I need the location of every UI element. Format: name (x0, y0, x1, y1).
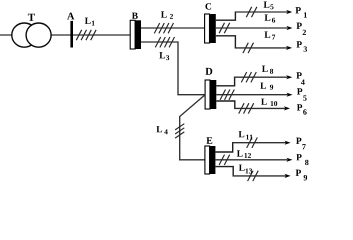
hatch marks line L5 (246, 7, 257, 17)
node A (bar) (70, 21, 73, 48)
load label P6 (297, 104, 307, 114)
hatch marks line L6 (219, 23, 230, 33)
value label L8 (262, 66, 273, 74)
bus C (205, 14, 210, 43)
arrow to load P1 (286, 10, 292, 14)
label bus C (205, 3, 211, 9)
load label P5 (297, 88, 307, 100)
wire L13: bottom branch of E (215, 167, 233, 176)
hatch marks line L1 (76, 30, 96, 40)
arrow to load P8 (286, 158, 292, 162)
wire L6: middle branch of C (216, 27, 288, 29)
hatch marks line L10 (239, 103, 254, 113)
bus B (130, 20, 135, 49)
wire L11: top branch of E (215, 143, 232, 152)
wire L4: from D input diagonally down to bus E (180, 95, 205, 160)
wire: main feeder from left edge through transformer T to node A and bus B (0, 34, 130, 36)
wire L3: bus B down and right to bus D (141, 42, 205, 95)
value label L2 (161, 11, 173, 18)
arrow to load P6 (284, 106, 290, 110)
arrow to load P7 (285, 141, 291, 145)
label bus E (206, 137, 212, 143)
label T (transformer) (28, 14, 35, 21)
value label L5 (264, 1, 274, 9)
value label L10 (261, 99, 277, 106)
label bus B (132, 13, 138, 19)
wire L9: middle branch of D (216, 94, 288, 96)
hatch marks line L7 (243, 43, 254, 53)
load label P1 (295, 7, 306, 17)
value label L13 (239, 165, 252, 174)
value label L9 (260, 83, 273, 90)
value label L7 (264, 31, 275, 39)
wire L2: bus B to bus C (141, 27, 205, 29)
arrow to load P9 (285, 174, 291, 178)
load label P8 (296, 154, 308, 165)
wire L7: bottom branch of C (216, 36, 236, 48)
load label P4 (296, 72, 304, 85)
wire L5: top branch of C (216, 12, 236, 20)
label bus D (205, 68, 212, 75)
wire L12: middle branch of E (215, 159, 287, 161)
hatch marks line L3 (155, 37, 174, 47)
value label L11 (239, 131, 253, 139)
arrow to load P4 (286, 75, 292, 79)
load label P2 (296, 23, 305, 35)
hatch marks line L9 (220, 90, 234, 100)
arrow to load P3 (286, 46, 292, 50)
label node A (67, 13, 74, 20)
hatch marks line L8 (241, 72, 256, 82)
load label P9 (296, 170, 307, 181)
hatch marks line L13 (248, 171, 259, 181)
value label L12 (237, 150, 251, 158)
hatch marks line L2 (154, 23, 173, 33)
arrow to load P5 (287, 93, 293, 97)
arrow to load P2 (286, 26, 292, 30)
hatch marks line L4 (175, 124, 184, 138)
bus E (205, 146, 210, 174)
hatch marks line L12 (219, 155, 230, 165)
bus D (205, 80, 210, 109)
load label P7 (296, 138, 306, 150)
hatch marks line L11 (247, 138, 258, 148)
wire L8: top branch of D (216, 77, 234, 85)
value label L6 (265, 14, 276, 22)
wire L10: bottom branch of D (216, 101, 235, 108)
value label L3 (159, 52, 169, 60)
value label L1 (85, 18, 95, 26)
transformer T (two overlapping circles) (12, 23, 51, 47)
value label L4 (156, 126, 167, 134)
load label P3 (296, 41, 307, 51)
